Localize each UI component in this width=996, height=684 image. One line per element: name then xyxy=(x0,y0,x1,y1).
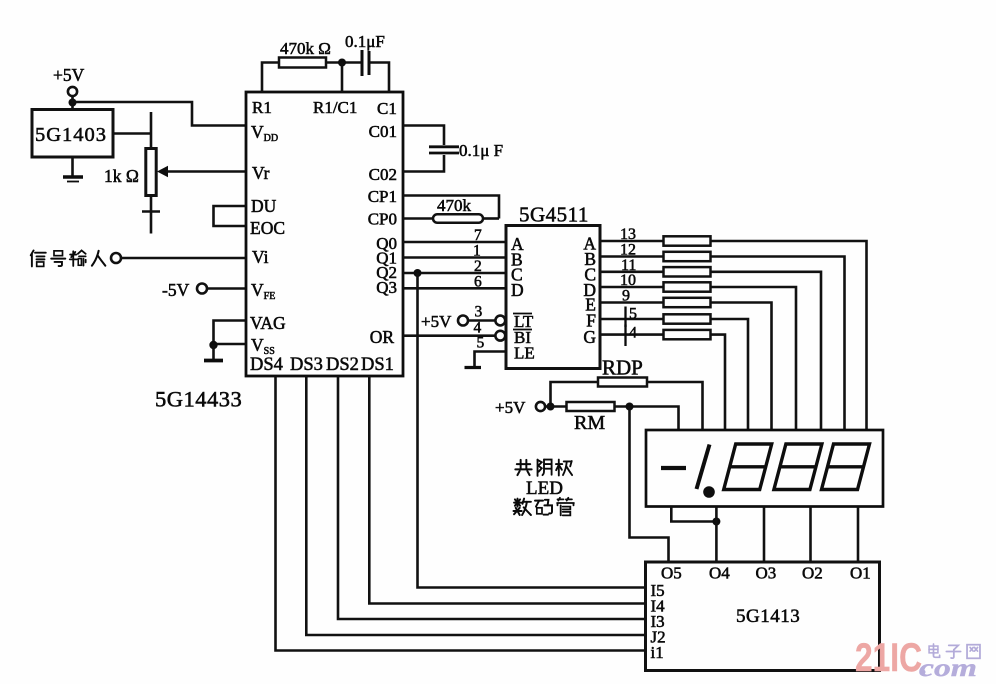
LED display DS (7-segment x3 + sign) xyxy=(646,430,883,507)
ground (LE) xyxy=(465,366,482,369)
wire R1/C1 pin xyxy=(341,63,344,93)
svg-text:O1: O1 xyxy=(850,564,871,583)
svg-text:Vr: Vr xyxy=(252,163,270,183)
svg-text:G: G xyxy=(583,327,596,347)
resistor segment b xyxy=(664,252,711,261)
resistor RDP xyxy=(598,356,647,387)
resistor segment c xyxy=(664,267,711,276)
wire segment d xyxy=(600,287,796,430)
svg-text:LE: LE xyxy=(514,344,535,363)
svg-text:4: 4 xyxy=(629,325,637,342)
wire segment f xyxy=(600,319,748,430)
svg-text:D: D xyxy=(511,280,524,300)
wire RDP left to +5V xyxy=(551,382,599,407)
potentiometer 1k ohm xyxy=(104,112,160,234)
wire Q2 xyxy=(403,272,506,275)
pin 4 circle (BI) xyxy=(495,331,505,341)
svg-text:EOC: EOC xyxy=(250,218,285,238)
capacitor 0.1uF (C01-C02) xyxy=(429,141,503,160)
wire O4 xyxy=(715,507,718,563)
svg-text:C1: C1 xyxy=(377,99,397,118)
wire CP0 to resistor xyxy=(403,217,433,220)
svg-text:VFE: VFE xyxy=(251,280,275,302)
pin 3 circle (LT) xyxy=(495,316,505,326)
resistor segment d xyxy=(664,282,711,291)
wire display cathode loop xyxy=(671,507,716,522)
svg-text:LED: LED xyxy=(526,478,563,499)
svg-text:5G4511: 5G4511 xyxy=(519,203,589,227)
svg-text:21IC: 21IC xyxy=(855,636,922,680)
resistor 470k ohm (R1 integrator) xyxy=(279,39,331,68)
wire capacitor to C1 pin xyxy=(370,63,389,93)
svg-text:DU: DU xyxy=(251,196,277,216)
IC 5G1403 xyxy=(32,110,113,158)
wire +5V to VDD xyxy=(73,96,247,126)
node 信号输入 (signal input) terminal xyxy=(31,250,121,266)
resistor segment a xyxy=(664,236,711,245)
wire DS4 to I1 xyxy=(276,376,646,651)
node +5V (LT enable) xyxy=(421,312,468,331)
wire C01 xyxy=(403,126,444,146)
wire Q3 xyxy=(403,287,506,290)
resistor segment f xyxy=(664,314,711,323)
svg-text:VDD: VDD xyxy=(251,122,278,144)
resistor segment g xyxy=(664,330,711,339)
node +5V (top left) xyxy=(53,65,85,96)
svg-text:VSS: VSS xyxy=(251,335,275,357)
svg-text:O2: O2 xyxy=(802,564,823,583)
junction dot RM output xyxy=(626,403,634,411)
wire VAG loop xyxy=(214,321,247,346)
svg-text:5: 5 xyxy=(477,335,485,352)
svg-text:VAG: VAG xyxy=(250,313,286,333)
wire CP1 loop xyxy=(403,196,499,219)
wire RM junction to O5 xyxy=(630,407,669,563)
wire O3 xyxy=(763,507,766,563)
wire Q2 to I5 (5G1413) xyxy=(418,273,646,588)
svg-text:5G1413: 5G1413 xyxy=(736,606,800,627)
svg-text:DS1: DS1 xyxy=(361,355,394,375)
svg-text:6: 6 xyxy=(474,273,482,290)
watermark 21IC 电子网 .com xyxy=(855,636,980,682)
label 共阴极 LED 数码管 (common-cathode LED display) xyxy=(514,460,574,516)
svg-text:Q3: Q3 xyxy=(376,278,397,297)
wiper arrow of potentiometer xyxy=(157,166,168,177)
wire Q1 xyxy=(403,256,506,259)
IC U3 5G1413 xyxy=(646,562,880,671)
svg-text:C01: C01 xyxy=(369,122,397,141)
svg-text:O3: O3 xyxy=(756,564,777,583)
svg-text:OR: OR xyxy=(370,327,395,347)
wire DS3 to I2 xyxy=(306,376,645,635)
resistor segment e xyxy=(664,298,711,307)
wire segment b xyxy=(600,257,845,431)
svg-text:470k Ω: 470k Ω xyxy=(280,39,331,58)
svg-text:9: 9 xyxy=(622,288,630,305)
svg-text:0.1μ F: 0.1μ F xyxy=(459,141,503,160)
svg-text:5: 5 xyxy=(629,306,637,323)
resistor 470k (clock) xyxy=(433,196,483,223)
svg-text:0.1μF: 0.1μF xyxy=(345,32,385,51)
svg-text:5G1403: 5G1403 xyxy=(35,124,107,146)
svg-text:R1/C1: R1/C1 xyxy=(313,98,357,117)
junction dot VAG/VSS xyxy=(209,341,217,349)
svg-text:CP0: CP0 xyxy=(368,210,397,229)
svg-text:-5V: -5V xyxy=(162,280,190,300)
wire C02 xyxy=(403,155,444,172)
junction dot +5V xyxy=(69,99,77,107)
wire +5V to RM xyxy=(545,405,567,408)
wire O1 xyxy=(857,507,860,563)
svg-text:10: 10 xyxy=(620,272,636,289)
svg-text:com: com xyxy=(919,655,977,682)
svg-text:DS4: DS4 xyxy=(250,355,283,375)
wire LE to ground xyxy=(475,352,507,367)
capacitor 0.1uF (top) xyxy=(345,32,385,76)
svg-text:1: 1 xyxy=(473,243,481,260)
junction dot R1/C1 xyxy=(338,59,346,67)
wire Q0 xyxy=(403,241,506,244)
svg-text:3: 3 xyxy=(475,304,483,321)
pin number 15 xyxy=(626,306,638,328)
wire wiper to Vr xyxy=(166,170,246,173)
IC U1 5G14433 xyxy=(246,92,403,376)
ground (VSS) xyxy=(204,345,223,361)
svg-text:RDP: RDP xyxy=(602,356,643,380)
wire RM to display common xyxy=(615,407,679,431)
svg-text:13: 13 xyxy=(620,226,636,243)
svg-text:+5V: +5V xyxy=(53,65,85,85)
wire R1 pin to resistor xyxy=(262,63,279,93)
wire +5V to LT xyxy=(468,319,495,322)
svg-text:470k: 470k xyxy=(437,196,472,215)
svg-text:1k Ω: 1k Ω xyxy=(104,166,139,186)
svg-text:CP1: CP1 xyxy=(368,187,397,206)
svg-text:O5: O5 xyxy=(661,564,682,583)
node +5V (display) xyxy=(495,398,545,417)
wire segment a xyxy=(600,241,867,430)
junction dot Q2 xyxy=(414,269,422,277)
wire OR to BI xyxy=(403,334,495,337)
resistor RM xyxy=(567,402,615,434)
svg-text:+5V: +5V xyxy=(421,312,452,331)
wire RDP right to display DP xyxy=(647,382,703,430)
wire segment g xyxy=(600,335,725,430)
wire segment c xyxy=(600,272,821,430)
svg-text:i1: i1 xyxy=(651,643,664,662)
wire resistor to CP1 loop xyxy=(483,217,499,220)
wire VSS xyxy=(214,343,247,346)
svg-text:DS3: DS3 xyxy=(290,355,323,375)
ground (below 5G1403) xyxy=(63,157,83,182)
svg-text:Vi: Vi xyxy=(252,247,269,267)
wire resistor to junction xyxy=(326,61,361,64)
wire segment e xyxy=(600,303,772,431)
node -5V terminal xyxy=(162,280,207,300)
wire 5G1403 output xyxy=(113,132,151,135)
wire VEE xyxy=(207,287,246,290)
svg-text:DS2: DS2 xyxy=(326,355,359,375)
svg-text:C02: C02 xyxy=(369,165,397,184)
svg-text:RM: RM xyxy=(574,412,605,434)
svg-text:+5V: +5V xyxy=(495,398,526,417)
wire DS2 to I3 xyxy=(338,376,646,619)
svg-text:O4: O4 xyxy=(709,564,730,583)
wire DS1 to I4 xyxy=(369,376,645,604)
pin number 14 xyxy=(626,325,638,347)
svg-text:7: 7 xyxy=(474,227,482,244)
junction dot +5V/RDP/RM xyxy=(547,403,555,411)
svg-text:R1: R1 xyxy=(252,98,272,117)
junction dot cathode xyxy=(712,518,720,526)
wire O2 xyxy=(809,507,812,563)
wire DU-EOC loop xyxy=(214,206,247,226)
svg-text:5G14433: 5G14433 xyxy=(155,387,242,412)
wire Vi input xyxy=(121,257,246,260)
IC U2 5G4511 xyxy=(506,203,600,369)
